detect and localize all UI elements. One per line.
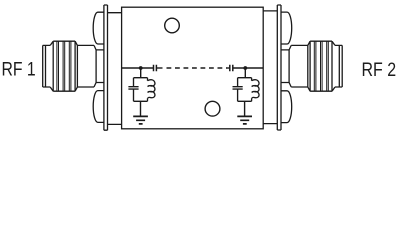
ground (right) [237, 116, 252, 124]
screw (J1 bottom) [93, 91, 104, 123]
transmission line (dashed) [167, 67, 227, 69]
wire: transmission line to C2 [227, 67, 230, 69]
wire: tank 1 to ground [140, 101, 142, 116]
mounting hole (bottom) [205, 101, 220, 116]
J1 mating face [43, 45, 46, 87]
J2 neck-to-barrel step [289, 45, 291, 87]
J1 barrel [77, 45, 94, 87]
J1 barrel-to-neck step [94, 45, 96, 87]
connector J2 (RF 2 side) [281, 41, 342, 91]
ground (left) [133, 116, 148, 124]
J2 barrel [291, 45, 308, 87]
J2 flange boss [263, 11, 277, 124]
J2 shoulder [332, 41, 335, 91]
J1 shoulder [50, 41, 53, 91]
J1 flange boss [108, 13, 122, 125]
svg-text:RF 2: RF 2 [362, 59, 397, 81]
J1 face rim [43, 45, 51, 87]
connector J1 (RF 1 side) [43, 41, 104, 91]
node B junction [243, 66, 247, 70]
tank 2 top rail [238, 77, 252, 79]
screw (J2 bottom) [281, 91, 292, 123]
capacitor C1 (series, left) [154, 65, 157, 71]
tank 2 bottom rail [238, 100, 252, 102]
J1 nut-to-barrel chamfer [75, 41, 77, 91]
J2 coupling nut (knurled) [310, 41, 332, 91]
body outline [122, 7, 264, 129]
J1 coupling nut (knurled) [53, 41, 75, 91]
tank 1 bottom rail [134, 100, 148, 102]
J2 knurl lines [314, 41, 328, 91]
node A junction [139, 66, 143, 70]
wire: tank 2 to ground [244, 101, 246, 116]
J2 face rim [335, 45, 342, 87]
connector J1 mounting flange [104, 5, 108, 130]
capacitor C4 (shunt, right tank) [233, 78, 243, 102]
tank 1 top rail [134, 77, 148, 79]
J1 knurl lines [57, 41, 71, 91]
inductor L1 (left tank) [148, 78, 155, 102]
wire: C1 to transmission line [157, 67, 163, 69]
wire: node B down to tank 2 [244, 68, 246, 78]
mounting hole (top) [165, 18, 180, 33]
capacitor C2 (series, right) [230, 65, 233, 71]
capacitor C3 (shunt, left tank) [128, 78, 138, 102]
wire: RF1 port line [122, 67, 153, 69]
J2 neck [281, 50, 289, 83]
wire: C2 to RF2 port [233, 67, 263, 69]
J2 barrel-to-nut chamfer [308, 41, 310, 91]
svg-text:RF 1: RF 1 [2, 59, 36, 81]
inductor L2 (right tank) [252, 78, 259, 102]
J2 mating face [339, 45, 342, 87]
screw (J2 top) [281, 12, 292, 44]
connector J2 mounting flange [277, 5, 281, 130]
wire: node A down to tank 1 [140, 68, 142, 78]
J1 neck [96, 50, 104, 83]
screw (J1 top) [93, 12, 104, 44]
